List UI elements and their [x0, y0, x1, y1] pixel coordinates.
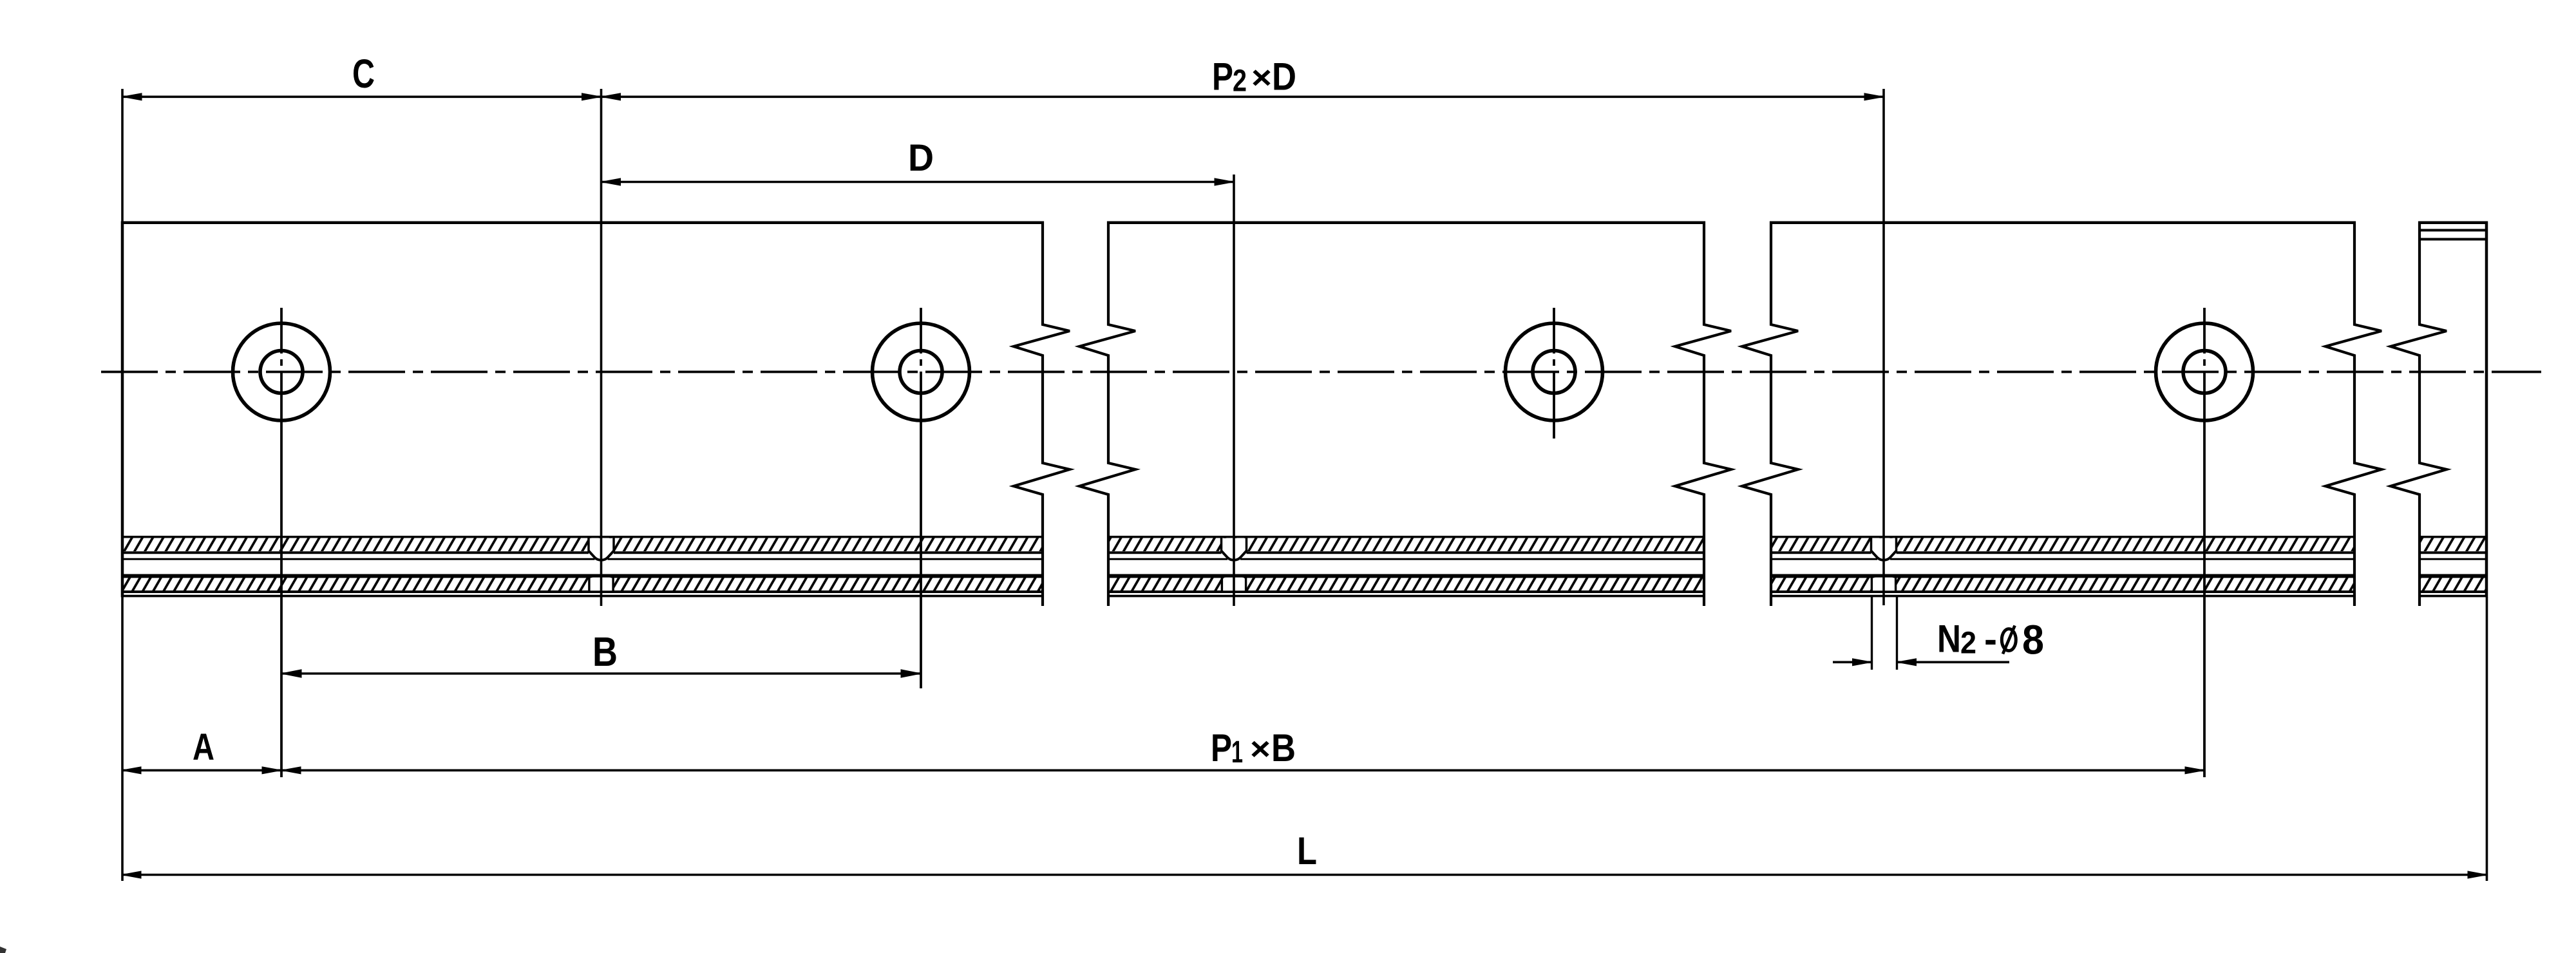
base bottom line, segment 2 [1108, 595, 1704, 598]
lower strip bottom line, segment 3 [1771, 590, 2354, 593]
upper strip lower sheet line, segment 2 [1108, 558, 1704, 560]
svg-text:D: D [1272, 55, 1296, 99]
base bottom line, segment 4 [2420, 595, 2486, 598]
break line, left end of segment 3 [1742, 222, 1798, 607]
svg-text:P: P [1211, 726, 1232, 769]
svg-text:2: 2 [1233, 64, 1247, 98]
hole H1 inner circle [260, 351, 303, 393]
extension line at second pitch point (x=1916) [1233, 175, 1235, 606]
svg-text:L: L [1297, 829, 1317, 873]
rail body top edge, segment 2 [1108, 221, 1704, 224]
lower strip bottom line, segment 2 [1108, 590, 1704, 593]
lower strip top thick line, segment 2 [1108, 574, 1704, 578]
lower strip bottom line, segment 1 [122, 590, 1043, 593]
break line, left end of segment 4 [2391, 222, 2447, 607]
dimension line C [122, 96, 601, 99]
hole H1 vertical centerline [280, 308, 283, 777]
dimension line A [122, 769, 281, 772]
dimension line B [281, 672, 921, 675]
phi8 dimension leader, right part [1897, 661, 2010, 664]
upper strip lower sheet line, segment 3 [1771, 558, 2354, 560]
lower strip hatched section, segment 4 [2420, 578, 2486, 591]
hole H3 inner circle [1533, 351, 1575, 393]
svg-text:C: C [352, 52, 375, 97]
svg-text:B: B [592, 628, 618, 675]
lower strip top thick line, segment 1 [122, 574, 1043, 578]
dimension line P2xD [601, 96, 1884, 99]
upper clamp strip hatched section, segment 1 [122, 538, 1043, 552]
phi8 hole right edge extension line [1896, 596, 1898, 670]
svg-text:×: × [1251, 60, 1272, 96]
upper strip top line, segment 3 [1771, 536, 2354, 538]
upper strip top line, segment 1 [122, 536, 1043, 538]
upper strip hatched section, segment 2 [1108, 538, 1704, 552]
svg-text:B: B [1271, 726, 1296, 769]
hole H2 counterbore outer circle [873, 323, 970, 420]
lower strip bottom line, segment 4 [2420, 590, 2486, 593]
lower strip top thick line, segment 3 [1771, 574, 2354, 578]
hole H4 vertical centerline [2203, 308, 2206, 777]
svg-text:×: × [1250, 731, 1271, 767]
base bottom line, segment 3 [1771, 595, 2354, 598]
svg-text:-: - [1984, 618, 1997, 661]
phi8 dimension leader, left part [1833, 661, 1872, 664]
upper strip bottom line, segment 2 [1108, 551, 1704, 554]
countersunk strip hole at second pitch point [1222, 538, 1247, 558]
svg-text:A: A [193, 726, 214, 768]
lower clamp strip hatched section, segment 1 [122, 578, 1043, 591]
dimension line P1xB [281, 769, 2204, 772]
hole H1 counterbore outer circle [233, 323, 330, 420]
phi diameter symbol (drawn) [2002, 629, 2016, 651]
hole H2 vertical centerline [920, 308, 922, 688]
extension line at right end (x=3861.5) [2486, 597, 2488, 881]
rail body top edge, segment 1 [121, 221, 1043, 224]
phi8 hole left edge extension line [1871, 596, 1873, 670]
upper strip top line, segment 4 [2420, 536, 2486, 538]
bottom-left corner printing artifact [0, 947, 6, 953]
upper strip top line, segment 2 [1108, 536, 1704, 538]
upper strip bottom line, segment 4 [2420, 551, 2486, 554]
upper strip bottom line, segment 1 [122, 551, 1043, 554]
end piece upper parallel line 2 [2420, 238, 2486, 241]
upper strip bottom line, segment 3 [1771, 551, 2354, 554]
break line, right end of segment 1 [1014, 222, 1070, 607]
upper strip lower sheet line, segment 1 [122, 558, 1043, 560]
lower strip hole at first pitch point [590, 578, 612, 591]
dimension line D [601, 181, 1235, 184]
lower strip hatched section, segment 3 [1771, 578, 2354, 591]
extension line at first pitch point (x=933.5) [600, 89, 603, 606]
break line, left end of segment 2 [1079, 222, 1135, 607]
break line, right end of segment 2 [1675, 222, 1731, 607]
hole H2 inner circle [900, 351, 942, 393]
svg-text:8: 8 [2022, 617, 2044, 663]
rail body left edge [121, 222, 124, 598]
hole H3 vertical centerline [1553, 308, 1555, 439]
rail body top edge, segment 4 (end piece) [2420, 221, 2486, 224]
end piece upper parallel line 1 [2420, 229, 2486, 232]
horizontal main axis centerline [101, 371, 2541, 373]
hole H3 counterbore outer circle [1506, 323, 1603, 420]
hole H4 inner circle [2183, 351, 2226, 393]
lower strip hole at third pitch point [1873, 578, 1895, 591]
svg-text:P: P [1212, 55, 1233, 99]
extension line at left end (x=190) [121, 89, 124, 881]
break line, right end of segment 3 [2325, 222, 2382, 607]
upper strip hatched section, segment 3 [1771, 538, 2354, 552]
rail body right edge [2485, 222, 2488, 598]
upper strip lower sheet line, segment 4 [2420, 558, 2486, 560]
rail body top edge, segment 3 [1771, 221, 2354, 224]
svg-text:N: N [1937, 618, 1961, 661]
lower strip top thick line, segment 4 [2420, 574, 2486, 578]
svg-text:D: D [908, 137, 934, 179]
svg-text:2: 2 [1960, 627, 1976, 661]
lower strip hatched section, segment 2 [1108, 578, 1704, 591]
extension line at third pitch point (x=2925) [1882, 89, 1885, 605]
countersunk strip hole at first pitch point [589, 538, 614, 558]
upper strip hatched section, segment 4 [2420, 538, 2486, 552]
hole H4 counterbore outer circle [2156, 323, 2253, 420]
svg-text:1: 1 [1231, 735, 1243, 769]
base bottom line, segment 1 [122, 595, 1043, 598]
lower strip hole at second pitch point [1223, 578, 1245, 591]
countersunk strip hole at third pitch point (N2 hole) [1871, 538, 1897, 558]
dimension line L [122, 874, 2487, 876]
